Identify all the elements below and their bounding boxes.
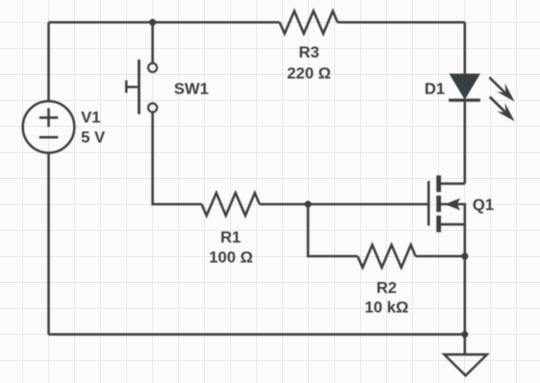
wire left rail lower xyxy=(47,153,49,335)
svg-text:R1: R1 xyxy=(220,230,241,247)
resistor R2 xyxy=(358,245,416,268)
svg-text:5 V: 5 V xyxy=(81,130,105,147)
svg-text:SW1: SW1 xyxy=(174,81,209,98)
wire LED drop xyxy=(464,22,466,74)
node junction top xyxy=(149,19,156,26)
wire switch to R1 xyxy=(153,112,202,204)
wire to ground symbol xyxy=(464,334,466,354)
wire node to R2 xyxy=(308,204,358,256)
wire left rail upper xyxy=(47,22,49,101)
svg-text:R2: R2 xyxy=(376,280,397,297)
voltage source V1 xyxy=(23,101,75,153)
wire switch drop from top rail xyxy=(151,22,153,63)
node junction gate xyxy=(305,201,312,208)
LED light arrow 1 xyxy=(489,77,505,93)
wire R1 to gate xyxy=(260,203,429,205)
svg-text:V1: V1 xyxy=(81,110,101,127)
svg-text:R3: R3 xyxy=(299,45,320,62)
svg-text:D1: D1 xyxy=(425,81,446,98)
wire R2 to source node xyxy=(416,255,465,257)
node junction source xyxy=(461,253,468,260)
wire top rail left segment xyxy=(49,21,280,23)
wire LED to drain xyxy=(464,102,466,184)
svg-text:100 Ω: 100 Ω xyxy=(209,250,253,267)
wire top rail right segment xyxy=(338,21,465,23)
wire source to ground rail xyxy=(464,224,466,334)
wire bottom rail xyxy=(49,333,465,335)
svg-text:10 kΩ: 10 kΩ xyxy=(365,300,409,317)
switch SW1 xyxy=(148,63,157,72)
resistor R3 xyxy=(280,11,338,34)
transistor Q1 xyxy=(427,181,430,226)
LED light arrow 2 xyxy=(490,97,506,113)
svg-text:Q1: Q1 xyxy=(473,197,494,214)
svg-text:220 Ω: 220 Ω xyxy=(287,65,331,82)
LED D1 xyxy=(450,74,479,98)
node junction ground xyxy=(461,331,468,338)
resistor R1 xyxy=(202,193,260,216)
ground xyxy=(444,355,487,376)
